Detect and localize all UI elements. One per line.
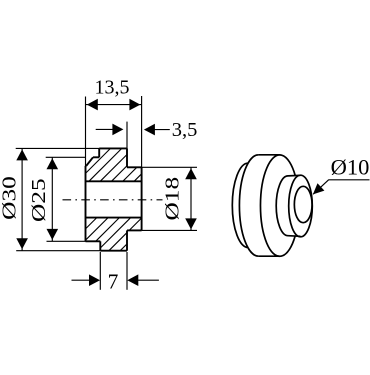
svg-text:13,5: 13,5	[95, 77, 130, 99]
svg-text:Ø30: Ø30	[0, 176, 20, 220]
svg-text:7: 7	[108, 269, 119, 293]
svg-text:Ø10: Ø10	[331, 155, 370, 180]
svg-text:Ø25: Ø25	[28, 178, 50, 222]
svg-text:3,5: 3,5	[172, 119, 198, 141]
svg-text:Ø18: Ø18	[161, 177, 183, 221]
